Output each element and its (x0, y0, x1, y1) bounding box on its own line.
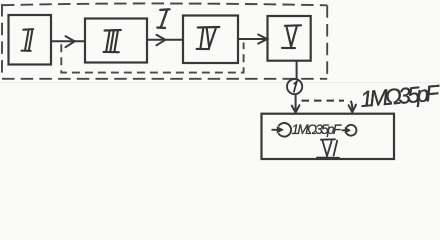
label III (104, 30, 121, 52)
block IV (183, 16, 238, 64)
faint scan crease line (0, 82, 440, 84)
label V (282, 25, 301, 48)
label I (above, between III and IV) (157, 9, 169, 28)
arrowhead into box VI (right) (349, 105, 356, 113)
block VI (262, 114, 395, 159)
node 1 digit (294, 82, 297, 92)
label VI (317, 139, 339, 158)
arrowhead IV to V (258, 35, 267, 44)
wire IV to V (238, 38, 268, 40)
dashed enclosure box I (2, 3, 327, 78)
label IV (197, 27, 220, 49)
inner dashed partition (U-shape under III and IV) (61, 43, 243, 73)
right output connector of VI (342, 125, 357, 136)
node 1 circle (287, 79, 302, 94)
wire III to IV (147, 39, 183, 41)
wire node 1 down to box VI with arrowhead (295, 94, 297, 112)
block III (85, 19, 147, 63)
block II (9, 15, 52, 65)
left input connector of VI (272, 123, 292, 137)
arrowhead into box VI (left) (292, 105, 300, 112)
wire II to III (51, 40, 85, 42)
paper background (0, 0, 440, 167)
block V (268, 16, 311, 61)
arrowhead III to IV (157, 35, 166, 46)
right branch drop wire (351, 101, 353, 112)
dashed wire from node 1 to right branch (302, 100, 345, 102)
svg-text:1MΩ35pF: 1MΩ35pF (292, 122, 342, 137)
arrowhead II to III (66, 36, 75, 47)
wire V down to node 1 (296, 61, 298, 79)
label II (22, 29, 34, 51)
